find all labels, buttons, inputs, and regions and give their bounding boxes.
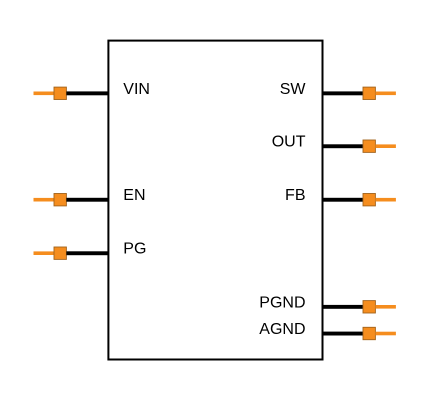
wire PG xyxy=(66,251,109,255)
wire SW xyxy=(322,91,365,95)
wire PGND xyxy=(322,305,365,309)
pin OUT terminal xyxy=(363,140,396,152)
svg-text:FB: FB xyxy=(285,187,305,204)
svg-text:EN: EN xyxy=(123,187,145,204)
pin PG terminal xyxy=(34,247,67,259)
wire AGND xyxy=(322,332,365,336)
wire OUT xyxy=(322,144,365,148)
pin FB terminal xyxy=(363,194,396,206)
IC body U1 xyxy=(108,41,322,360)
pin AGND terminal xyxy=(363,327,396,339)
wire FB xyxy=(322,198,365,202)
svg-text:PGND: PGND xyxy=(259,294,305,311)
svg-text:OUT: OUT xyxy=(272,134,306,151)
pin SW terminal xyxy=(363,87,396,99)
svg-text:SW: SW xyxy=(280,81,307,98)
wire VIN xyxy=(66,91,109,95)
svg-text:VIN: VIN xyxy=(123,81,150,98)
pin PGND terminal xyxy=(363,301,396,313)
svg-text:AGND: AGND xyxy=(259,321,305,338)
pin VIN terminal xyxy=(34,87,67,99)
svg-text:PG: PG xyxy=(123,241,146,258)
wire EN xyxy=(66,198,109,202)
pin EN terminal xyxy=(34,194,67,206)
